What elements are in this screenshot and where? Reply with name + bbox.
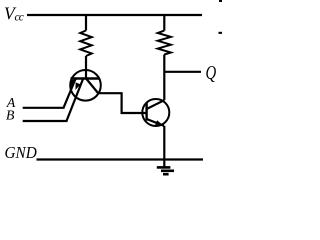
ground symbol bar 3 [163, 173, 169, 176]
transistor Q1 emitter 1 line [64, 79, 76, 108]
wire R2 bottom lead to Q2 collector [163, 55, 165, 101]
svg-text:cc: cc [15, 11, 24, 23]
resistor R2 [158, 31, 171, 55]
ground symbol bar 1 [157, 166, 171, 169]
transistor Q2 collector line [147, 100, 165, 109]
transistor Q2 circle [142, 99, 169, 126]
transistor Q1 collector line [87, 79, 99, 93]
wire GND rail [37, 158, 204, 160]
wire Q2 emitter to ground [163, 126, 165, 168]
resistor R1 [80, 31, 92, 57]
transistor Q2 emitter line [147, 119, 164, 126]
transistor Q2 emitter arrowhead [155, 120, 163, 125]
wire R2 top lead [163, 15, 165, 31]
wire input B [23, 120, 68, 122]
svg-text:B: B [6, 109, 15, 124]
transistor Q1 circle [70, 70, 101, 101]
transistor Q2 base bar [145, 103, 147, 121]
wire output Q branch [164, 71, 201, 73]
transistor Q1 base bar [71, 77, 100, 79]
wire Vcc rail [27, 14, 202, 16]
transistor Q1 emitter 1 arrowhead [71, 80, 76, 88]
wire input A [23, 107, 65, 109]
edge artifact dash right [219, 32, 223, 34]
svg-text:Q: Q [206, 60, 217, 83]
corner artifact mark top-right [219, 0, 222, 2]
wire R1 bottom lead to Q1 base [85, 56, 87, 79]
svg-text:GND: GND [5, 144, 38, 162]
transistor Q1 emitter 2 line [67, 79, 84, 121]
ground symbol bar 2 [161, 170, 174, 173]
wire Q1 collector to Q2 base [98, 93, 147, 113]
wire R1 top lead [85, 15, 87, 31]
transistor Q1 emitter 2 arrowhead [75, 82, 80, 90]
